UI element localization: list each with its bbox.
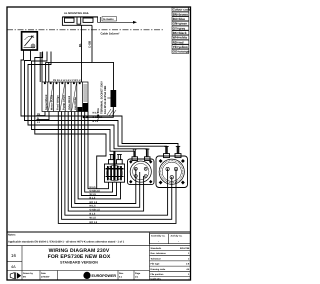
svg-text:B 1.5: B 1.5 bbox=[93, 120, 99, 123]
svg-text:GY=grey: GY=grey bbox=[173, 26, 186, 30]
svg-text:Date: Date bbox=[41, 272, 47, 275]
arrow label box bbox=[102, 17, 117, 21]
title block grid bbox=[7, 232, 150, 280]
fan wire 4 bbox=[78, 112, 120, 199]
svg-text:Rev.: Rev. bbox=[119, 272, 124, 275]
junction bbox=[83, 116, 85, 118]
title block top line bbox=[7, 231, 191, 233]
title text bbox=[48, 248, 111, 265]
wire bend 5 bbox=[35, 52, 106, 189]
svg-text:Applicable standards EN 60204-: Applicable standards EN 60204-1 / EN 614… bbox=[8, 241, 125, 244]
fuse strip top bus bbox=[62, 16, 98, 18]
crossing marks bbox=[107, 109, 116, 116]
border frame bbox=[7, 7, 191, 280]
svg-text:Code gen.: Code gen. bbox=[151, 278, 162, 281]
svg-text:YE=yellow: YE=yellow bbox=[173, 45, 189, 49]
svg-text:File position: File position bbox=[151, 273, 165, 276]
fan wire 7 bbox=[68, 112, 143, 212]
logo bbox=[83, 272, 90, 279]
cable arrow bbox=[100, 17, 137, 24]
svg-text:PE: PE bbox=[37, 113, 41, 116]
svg-text:Feed WH/gn: Feed WH/gn bbox=[57, 95, 60, 110]
svg-text:Assembly no.: Assembly no. bbox=[151, 235, 166, 238]
fan labels bbox=[90, 186, 101, 224]
fuse strip bottom bus bbox=[62, 17, 92, 25]
staircase labels bbox=[93, 112, 104, 123]
svg-text:File type: File type bbox=[151, 263, 161, 266]
wire C-GB bbox=[92, 25, 114, 90]
svg-text:M 1.5: M 1.5 bbox=[90, 205, 97, 208]
wire bbox=[41, 52, 43, 82]
svg-text:N: N bbox=[37, 117, 39, 120]
fan wire 1 bbox=[88, 112, 109, 189]
wire bend 4 bbox=[32, 52, 135, 158]
fan wire 9 bbox=[62, 112, 172, 220]
wire stub N bbox=[37, 112, 50, 120]
wire bbox=[39, 52, 41, 82]
wire strip to arrow bbox=[98, 17, 101, 22]
fan wire 3 bbox=[81, 112, 116, 196]
svg-text:B 1.5: B 1.5 bbox=[90, 196, 96, 199]
svg-text:Motor BU/bk: Motor BU/bk bbox=[51, 94, 54, 110]
wire run to block bbox=[46, 61, 92, 63]
wire U1 out 2 bbox=[25, 50, 167, 154]
svg-text:16A 3P+N+E IP44 CEE: 16A 3P+N+E IP44 CEE bbox=[104, 86, 107, 114]
svg-text:Gen. tolerance: Gen. tolerance bbox=[151, 252, 167, 255]
svg-text:PE N L1 L2 L3 U V W 1 2: PE N L1 L2 L3 U V W 1 2 bbox=[53, 79, 81, 82]
fuse FU2 bbox=[83, 18, 93, 22]
wire bend 3 bbox=[28, 52, 147, 158]
block cell texts bbox=[45, 94, 77, 110]
svg-text:27/03/07: 27/03/07 bbox=[41, 276, 50, 279]
fan wire 8 bbox=[65, 112, 168, 216]
svg-text:BK=black: BK=black bbox=[173, 31, 187, 35]
block diagonals bbox=[49, 83, 77, 110]
fuse tick bbox=[107, 97, 110, 99]
fan wire 5 bbox=[75, 112, 136, 204]
svg-text:NO 1.5: NO 1.5 bbox=[90, 221, 98, 224]
junction bbox=[86, 116, 88, 118]
svg-text:Tolerance: Tolerance bbox=[151, 257, 162, 260]
svg-text:Cable 5x1mm²: Cable 5x1mm² bbox=[101, 31, 120, 35]
svg-text:Pump GY/ye: Pump GY/ye bbox=[62, 94, 65, 110]
svg-text:WH=white: WH=white bbox=[173, 36, 188, 40]
svg-text:FOR EPS730E NEW BOX: FOR EPS730E NEW BOX bbox=[48, 254, 111, 260]
svg-text:Aux RD/bu: Aux RD/bu bbox=[74, 97, 77, 110]
svg-text:GN=green: GN=green bbox=[173, 22, 188, 26]
wire B1 bbox=[81, 25, 83, 82]
svg-text:Page: Page bbox=[135, 272, 141, 275]
svg-text:C-GB: C-GB bbox=[87, 41, 91, 48]
colour code legend table bbox=[172, 7, 189, 53]
fuse holder center bbox=[77, 17, 81, 24]
socket text column bbox=[97, 81, 107, 121]
svg-text:Standards: Standards bbox=[151, 247, 162, 250]
svg-text:Signal BN/rd: Signal BN/rd bbox=[45, 94, 48, 110]
svg-text:M 3.5: M 3.5 bbox=[93, 112, 99, 115]
svg-text:RD=red: RD=red bbox=[173, 40, 184, 44]
wire bbox=[45, 62, 47, 82]
svg-text:STANDARD VERSION: STANDARD VERSION bbox=[60, 261, 98, 265]
right info table bbox=[150, 234, 191, 277]
fan wire 2 bbox=[85, 112, 113, 193]
wire stub PE bbox=[37, 112, 46, 116]
svg-text:AL MOUNTING RAIL: AL MOUNTING RAIL bbox=[64, 12, 89, 15]
svg-text:BN=brown: BN=brown bbox=[173, 12, 188, 16]
svg-text:Valve BK/rd: Valve BK/rd bbox=[68, 95, 71, 110]
fuse F1 bbox=[111, 90, 117, 107]
drawn-by cells bbox=[23, 272, 141, 279]
terminal block X1 bbox=[42, 82, 88, 112]
svg-text:EUROPOWER: EUROPOWER bbox=[92, 274, 117, 278]
fan wire 6 bbox=[72, 112, 140, 208]
svg-text:ISO-2768: ISO-2768 bbox=[180, 247, 190, 250]
stub labels bbox=[37, 113, 41, 124]
projection symbol bbox=[10, 272, 21, 279]
svg-text:OG=orange: OG=orange bbox=[173, 50, 190, 54]
connector SC3 bbox=[156, 146, 188, 187]
wire F1 out bbox=[84, 107, 114, 117]
svg-text:BV: BV bbox=[23, 276, 27, 279]
svg-text:Colour code: Colour code bbox=[173, 8, 191, 12]
connector SC2 bbox=[128, 149, 155, 185]
svg-text:Activity no.: Activity no. bbox=[171, 235, 183, 238]
svg-text:G-GB 1.5: G-GB 1.5 bbox=[90, 209, 101, 212]
svg-text:B 1.5: B 1.5 bbox=[90, 213, 96, 216]
svg-text:Drawing scale: Drawing scale bbox=[151, 268, 166, 271]
centerline dash-dot bbox=[7, 29, 163, 31]
svg-text:1: 1 bbox=[32, 35, 34, 39]
svg-text:NO 1.5: NO 1.5 bbox=[90, 201, 98, 204]
block terminal marks bbox=[44, 82, 88, 111]
svg-text:Drawn by: Drawn by bbox=[23, 272, 34, 275]
svg-text:16: 16 bbox=[11, 253, 16, 258]
comb strip ticks bbox=[83, 85, 87, 101]
svg-text:W 1.5: W 1.5 bbox=[90, 217, 97, 220]
svg-text:G-GB 3.5: G-GB 3.5 bbox=[93, 116, 104, 119]
wire bbox=[48, 62, 50, 82]
svg-text:Notes:: Notes: bbox=[8, 234, 16, 237]
connector SC1 bbox=[105, 151, 125, 182]
svg-text:4A: 4A bbox=[11, 265, 16, 269]
fan wire 10 bbox=[58, 112, 176, 224]
wire U1 out 1 bbox=[21, 50, 178, 154]
svg-text:to mains: to mains bbox=[103, 18, 114, 21]
fuse FU1 bbox=[65, 18, 75, 22]
svg-text:BU=blue: BU=blue bbox=[173, 17, 186, 21]
svg-text:B1: B1 bbox=[78, 43, 82, 47]
control unit U1 bbox=[22, 32, 38, 50]
